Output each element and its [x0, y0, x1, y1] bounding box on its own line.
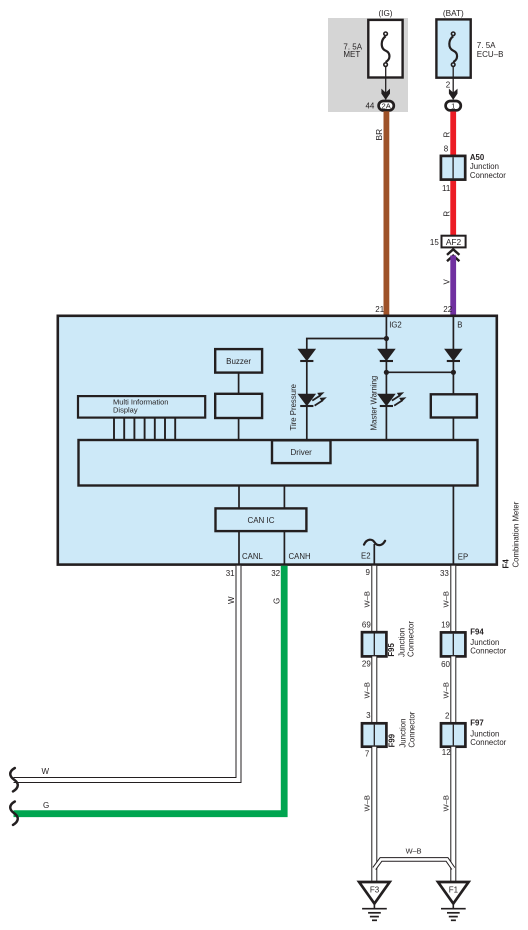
svg-text:W–B: W–B [441, 795, 450, 811]
ground F3 [359, 882, 390, 920]
svg-text:2A: 2A [382, 101, 392, 110]
CAN IC box [216, 508, 307, 531]
multi information display box [78, 396, 205, 418]
terminal EP label [458, 553, 468, 562]
wire row box to CAN IC left [238, 486, 240, 509]
wire color label W-B EP upper [441, 591, 450, 607]
pin 19 label [441, 620, 450, 629]
svg-text:G: G [272, 598, 281, 604]
F95 name label rotated [387, 621, 416, 657]
svg-text:Display: Display [113, 406, 138, 415]
pin 7 label [365, 750, 370, 759]
svg-text:F94: F94 [470, 628, 484, 637]
connector terminal 2A [379, 101, 394, 110]
wire color label W-B bridge [406, 847, 422, 856]
svg-text:MET: MET [343, 50, 360, 59]
svg-text:Connector: Connector [407, 621, 416, 657]
wire fuse ECU-B to terminal 1 with arrow [449, 66, 458, 100]
wire fuse MET to terminal 2A with arrow [381, 66, 390, 100]
node junction dot master warning [384, 370, 389, 375]
svg-text:1: 1 [451, 102, 455, 111]
junction connector A50 [441, 156, 465, 180]
svg-text:15: 15 [430, 238, 439, 247]
node junction dot B column [451, 370, 456, 375]
svg-text:69: 69 [362, 620, 371, 629]
pin 11 label [442, 184, 451, 193]
svg-text:F97: F97 [470, 719, 483, 728]
svg-text:3: 3 [366, 711, 371, 720]
wire BR brown [383, 111, 389, 315]
LED tire pressure [299, 392, 327, 406]
junction connector F95 [362, 632, 386, 656]
wire master warning diode to LED [385, 362, 387, 395]
junction connector F97 [441, 723, 465, 746]
svg-text:(BAT): (BAT) [443, 9, 464, 18]
wire driver stage box to row box [238, 418, 240, 440]
svg-text:EP: EP [458, 553, 468, 562]
ground F1 [438, 882, 469, 920]
terminal CANH label [289, 552, 311, 561]
svg-text:32: 32 [271, 569, 280, 578]
F99 name label rotated [388, 711, 417, 747]
svg-text:Connector: Connector [470, 738, 506, 747]
svg-text:9: 9 [366, 568, 371, 577]
connector AF2 [442, 236, 466, 248]
wire color label W-B EP lower [441, 795, 450, 811]
junction connector F94 [441, 632, 465, 656]
wire CANL white (W) [14, 566, 239, 780]
node junction dot on IG2 wire [384, 336, 389, 341]
svg-text:Junction: Junction [470, 162, 499, 171]
break symbol CANH left end [10, 802, 18, 825]
svg-text:Junction: Junction [398, 719, 407, 748]
combination meter block body [58, 316, 497, 565]
terminal B label [457, 320, 462, 329]
diode D1 tire pressure [299, 349, 316, 361]
wire CANH green (G) [14, 566, 285, 814]
svg-text:12: 12 [442, 748, 451, 757]
fuse MET value label 7.5A MET [343, 42, 362, 59]
wire E2 W-B segment 2 [371, 656, 377, 723]
wire color label W-B E2 upper [362, 591, 371, 607]
wire E2 W-B segment 3 to ground [371, 747, 377, 882]
wire color label G horizontal [43, 801, 49, 810]
svg-text:F99: F99 [388, 733, 397, 747]
svg-text:R: R [442, 211, 451, 217]
svg-text:Connector: Connector [407, 711, 416, 747]
break symbol CANL left end [10, 768, 18, 791]
resistor box unlabeled [431, 394, 477, 417]
wire color label G rotated [272, 598, 281, 604]
pin 60 label [441, 660, 450, 669]
svg-text:W–B: W–B [441, 682, 450, 698]
wire buzzer to driver stage box [238, 373, 240, 394]
svg-text:Master Warning: Master Warning [369, 376, 378, 431]
pin 21 label [375, 305, 384, 314]
svg-text:F95: F95 [387, 643, 396, 657]
svg-text:F4: F4 [502, 559, 511, 569]
svg-text:21: 21 [375, 305, 384, 314]
svg-text:Junction: Junction [398, 628, 407, 657]
fuse ECU-B (BAT) header label [443, 9, 464, 18]
fuse MET body [368, 20, 402, 78]
svg-text:Tire Pressure: Tire Pressure [289, 384, 298, 431]
wire tire pressure LED to row box [306, 407, 308, 440]
svg-text:7. 5A: 7. 5A [477, 41, 496, 50]
svg-text:19: 19 [441, 620, 450, 629]
wire B diode to resistor box [452, 362, 454, 395]
wire EP W-B segment 3 to ground [450, 747, 456, 882]
wire CANL internal [238, 531, 240, 564]
svg-text:2: 2 [446, 81, 451, 90]
svg-text:F3: F3 [370, 886, 380, 895]
pin 3 label [366, 711, 371, 720]
label Master Warning [369, 376, 378, 431]
wire E2 internal [373, 544, 375, 565]
wire color label W-B EP middle [441, 682, 450, 698]
wire tire pressure diode to LED [306, 362, 308, 395]
svg-text:E2: E2 [361, 552, 371, 561]
terminal IG2 label [389, 321, 402, 330]
svg-text:W–B: W–B [362, 682, 371, 698]
wire color label BR [374, 129, 384, 141]
buzzer driver stage box unlabeled [215, 394, 262, 418]
svg-text:AF2: AF2 [446, 237, 462, 247]
svg-text:W–B: W–B [406, 847, 422, 856]
wire resistor box to row box [452, 418, 454, 441]
wire row box to CAN IC right [283, 486, 285, 509]
pin 12 label [442, 748, 451, 757]
svg-text:W–B: W–B [362, 795, 371, 811]
svg-text:B: B [457, 320, 462, 329]
wire EP internal [452, 486, 454, 565]
svg-text:ECU–B: ECU–B [477, 50, 504, 59]
junction block grey background [328, 18, 408, 112]
pin 31 label [226, 569, 235, 578]
driver box [272, 440, 331, 463]
svg-text:31: 31 [226, 569, 235, 578]
wire color label W-B E2 middle [362, 682, 371, 698]
fuse ECU-B body [436, 19, 470, 77]
pin 22 label [443, 305, 452, 314]
wire V violet [450, 256, 456, 316]
svg-text:F1: F1 [449, 886, 459, 895]
svg-text:V: V [442, 279, 451, 285]
block name label F4 Combination Meter [502, 501, 521, 568]
svg-text:Buzzer: Buzzer [226, 357, 251, 366]
pin 15 label [430, 238, 439, 247]
svg-text:W: W [227, 596, 236, 604]
terminal CANL label [242, 552, 263, 561]
wire color label W horizontal [42, 767, 50, 776]
svg-text:G: G [43, 801, 49, 810]
F97 name label [470, 719, 506, 747]
pin 2 label [446, 81, 451, 90]
wire color label R lower [442, 211, 451, 217]
fuse MET (IG) header label [378, 9, 392, 18]
wire R red [450, 112, 456, 237]
svg-text:44: 44 [365, 101, 374, 110]
pin 44 label [365, 101, 374, 110]
shield chevron symbol [447, 249, 459, 261]
svg-text:W–B: W–B [362, 591, 371, 607]
A50 name label [470, 153, 506, 180]
svg-text:Connector: Connector [470, 171, 506, 180]
svg-text:R: R [442, 132, 451, 138]
diode D3 B column [445, 349, 462, 361]
LED master warning [378, 392, 406, 406]
svg-text:BR: BR [374, 129, 384, 141]
F94 name label [470, 628, 506, 656]
wire B internal vertical [452, 317, 454, 350]
wire color label W rotated [227, 596, 236, 604]
buzzer box [215, 349, 262, 373]
wire IG2 internal vertical [385, 317, 387, 350]
main circuit row box [79, 440, 478, 486]
pin 9 label [366, 568, 371, 577]
wire color label W-B E2 lower [362, 795, 371, 811]
wire cross link to B column [386, 371, 453, 373]
wire branch to tire pressure column [307, 339, 387, 350]
svg-text:7: 7 [365, 750, 370, 759]
pin 32 label [271, 569, 280, 578]
connector terminal 1 [446, 101, 461, 111]
wire color label R upper [442, 132, 451, 138]
svg-text:11: 11 [442, 184, 451, 193]
pin 29 label [362, 659, 371, 668]
noise filter tilde on E2 [364, 540, 385, 545]
diode D2 master warning [378, 349, 395, 361]
svg-text:CANH: CANH [289, 552, 311, 561]
svg-text:Driver: Driver [291, 448, 313, 457]
svg-text:29: 29 [362, 659, 371, 668]
wire master warning LED to row box [385, 407, 387, 440]
svg-text:Combination Meter: Combination Meter [512, 501, 521, 567]
MID bus comb wires [114, 418, 175, 440]
splice bridge wire W-B between columns [374, 859, 453, 868]
pin 8 label [444, 144, 449, 153]
pin 2 label F97 [445, 712, 450, 721]
svg-text:33: 33 [440, 569, 449, 578]
svg-text:(IG): (IG) [378, 9, 392, 18]
svg-text:2: 2 [445, 712, 450, 721]
terminal E2 label [361, 552, 371, 561]
label Tire Pressure [289, 384, 298, 431]
fuse ECU-B value label 7.5A ECU-B [477, 41, 504, 59]
svg-text:60: 60 [441, 660, 450, 669]
svg-text:IG2: IG2 [389, 321, 402, 330]
svg-text:W: W [42, 767, 50, 776]
svg-text:A50: A50 [470, 153, 485, 162]
wire CANH internal [283, 531, 285, 564]
wire EP W-B segment 1 [450, 566, 456, 633]
svg-text:CAN IC: CAN IC [247, 516, 274, 525]
svg-text:22: 22 [443, 305, 452, 314]
svg-text:8: 8 [444, 144, 449, 153]
pin 33 label [440, 569, 449, 578]
wire E2 W-B segment 1 [371, 566, 377, 632]
wire color label V [442, 279, 451, 285]
junction connector F99 [362, 723, 386, 746]
svg-text:Connector: Connector [470, 646, 506, 655]
wire EP W-B segment 2 [450, 656, 456, 723]
svg-text:CANL: CANL [242, 552, 263, 561]
svg-text:W–B: W–B [441, 591, 450, 607]
pin 69 label [362, 620, 371, 629]
